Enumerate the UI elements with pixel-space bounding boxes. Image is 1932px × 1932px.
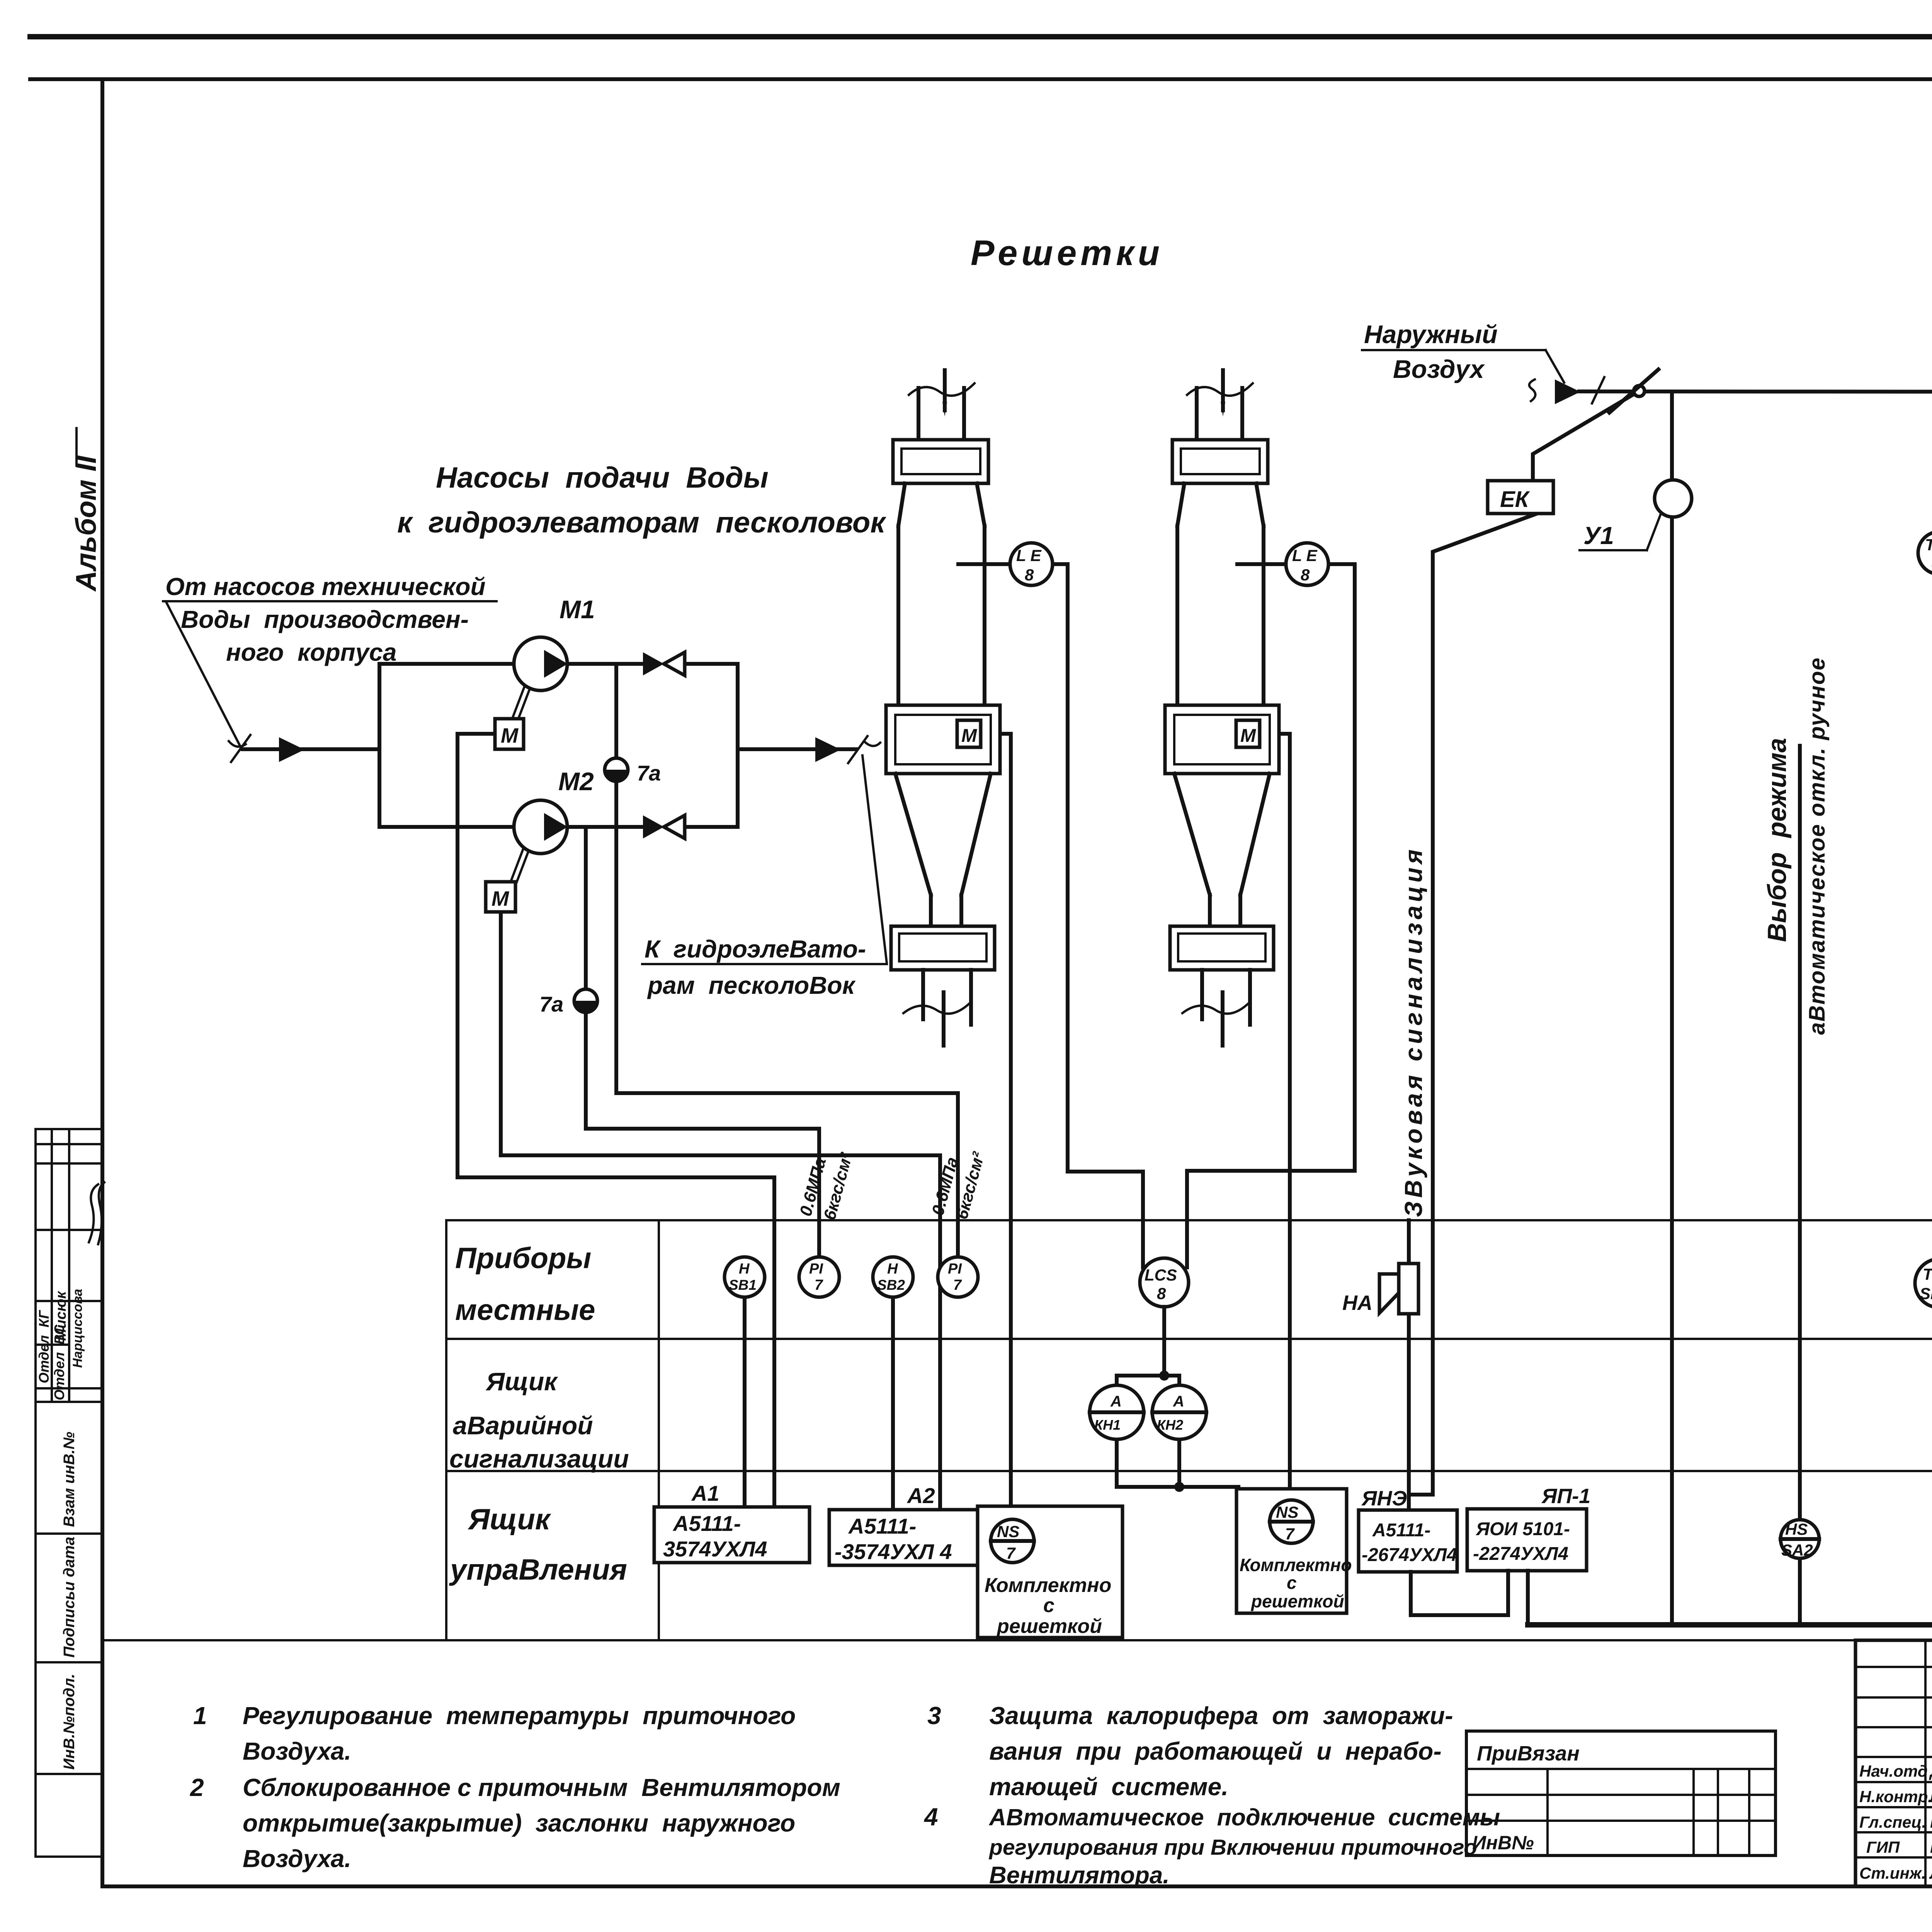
pump loop left header bbox=[378, 664, 381, 827]
pressure gauge PI7 first bbox=[799, 1257, 839, 1297]
box YP-1 bbox=[1467, 1509, 1587, 1571]
motor box M of pump M1 bbox=[495, 719, 524, 749]
drawing frame bottom bbox=[102, 1884, 1932, 1888]
svg-text:ГИП: ГИП bbox=[1866, 1838, 1900, 1856]
inlet flow arrow bbox=[279, 737, 304, 762]
svg-text:аВарийной: аВарийной bbox=[453, 1411, 593, 1440]
grate 2 top tube bbox=[1195, 388, 1199, 440]
grate 2 top rectangle bbox=[1172, 440, 1268, 483]
svg-text:ЗВуковая сигнализация: ЗВуковая сигнализация bbox=[1400, 846, 1427, 1217]
svg-text:LСS: LСS bbox=[1145, 1266, 1177, 1284]
stem H SB1 to box A1 bbox=[743, 1297, 747, 1508]
grate 1 top tube bbox=[917, 388, 920, 440]
pump M2 bbox=[514, 800, 567, 854]
svg-text:1: 1 bbox=[193, 1702, 207, 1730]
air damper junction bbox=[1634, 386, 1645, 396]
svg-text:рам песколоВок: рам песколоВок bbox=[647, 971, 856, 999]
pressure gauge PI7 second bbox=[938, 1257, 978, 1297]
svg-text:КН1: КН1 bbox=[1094, 1417, 1121, 1433]
wire LCS8 to horns bbox=[1117, 1307, 1179, 1386]
stamp column line 2 bbox=[68, 1129, 70, 1402]
alarm horn A KH2 bbox=[1152, 1385, 1206, 1439]
svg-text:Воздуха.: Воздуха. bbox=[243, 1845, 351, 1872]
grate 2 starter box NS7 bbox=[1236, 1489, 1347, 1613]
actuator U1 bbox=[1655, 480, 1692, 517]
grate 2 bottom rectangle bbox=[1170, 926, 1274, 970]
grate 1 motor box bbox=[957, 720, 981, 747]
wire HS SA2 to bus bbox=[1798, 1558, 1802, 1625]
wire YP1 to bus bbox=[1526, 1571, 1530, 1625]
motor box M of pump M2 bbox=[486, 882, 515, 912]
grate 2 bottom center line bbox=[1221, 992, 1225, 1046]
svg-text:Ящик: Ящик bbox=[468, 1503, 551, 1536]
control bus bbox=[1528, 1622, 1932, 1628]
alarm box YANE bbox=[1359, 1510, 1457, 1572]
wire from EK to damper junction bbox=[1533, 391, 1639, 481]
button station H SB1 bbox=[724, 1257, 765, 1297]
svg-text:АВтоматическое подключение с: АВтоматическое подключение системы bbox=[988, 1804, 1500, 1830]
grate 2 bottom break wave bbox=[1182, 1002, 1250, 1014]
grate 2 motor box bbox=[1236, 720, 1260, 747]
svg-text:У1: У1 bbox=[1583, 522, 1614, 549]
svg-text:открытие(закрытие) заслонки: открытие(закрытие) заслонки наружного bbox=[243, 1809, 795, 1837]
control box A2 bbox=[829, 1510, 981, 1565]
top band line bbox=[30, 34, 1932, 39]
svg-text:Сблокированное с приточным Ве: Сблокированное с приточным Вентилятором bbox=[243, 1774, 840, 1801]
grate 1 level stub to LE8 bbox=[958, 562, 1010, 566]
svg-text:8: 8 bbox=[1301, 566, 1310, 584]
attachment box Привязан bbox=[1466, 1731, 1776, 1855]
svg-text:ИнВ.№подл.: ИнВ.№подл. bbox=[61, 1674, 78, 1770]
svg-text:SВ1: SВ1 bbox=[729, 1277, 757, 1293]
wire from pump M2 starter to board bbox=[501, 912, 940, 1509]
sensor 7a bottom bbox=[574, 989, 597, 1012]
table row line 1 bbox=[446, 1338, 1932, 1340]
top pump pipe bbox=[379, 662, 643, 666]
svg-text:Ящик: Ящик bbox=[485, 1367, 558, 1396]
svg-text:Выбор режима: Выбор режима bbox=[1762, 738, 1792, 942]
sensor TE4 bbox=[1918, 532, 1932, 574]
svg-text:Воздух: Воздух bbox=[1393, 355, 1485, 383]
svg-text:ЯП-1: ЯП-1 bbox=[1541, 1485, 1590, 1508]
bottom U link YANE YP1 bbox=[1411, 1571, 1508, 1615]
svg-text:Комплектно: Комплектно bbox=[1240, 1555, 1352, 1575]
svg-text:Воды производствен-: Воды производствен- bbox=[181, 605, 469, 633]
svg-text:А1: А1 bbox=[691, 1481, 719, 1505]
grate 2 motor wire to NS7 box bbox=[1260, 734, 1290, 1501]
svg-text:РI: РI bbox=[948, 1261, 962, 1277]
impulse line sensor 7a bottom to gauge PI7 bbox=[586, 827, 819, 1258]
svg-text:А5111-: А5111- bbox=[848, 1514, 916, 1538]
svg-text:сигнализации: сигнализации bbox=[449, 1444, 629, 1473]
svg-text:Н.контр.: Н.контр. bbox=[1859, 1787, 1932, 1806]
damper blade bbox=[1609, 369, 1658, 413]
svg-text:Регулирование температуры пр: Регулирование температуры приточного bbox=[243, 1702, 796, 1730]
stem H SB2 to box A2 bbox=[891, 1297, 895, 1510]
svg-text:к гидроэлеваторам песколовок: к гидроэлеваторам песколовок bbox=[397, 506, 886, 539]
svg-text:ГусеВа: ГусеВа bbox=[1930, 1838, 1932, 1856]
horn stems to grate box bbox=[1117, 1438, 1238, 1487]
grate 1 top break wave bbox=[909, 383, 975, 396]
svg-text:7а: 7а bbox=[539, 992, 563, 1016]
leader from outlet break bbox=[862, 755, 887, 963]
svg-text:-2674УХЛ4: -2674УХЛ4 bbox=[1362, 1545, 1457, 1565]
grate 1 flare bbox=[898, 483, 905, 526]
valve on top pipe bbox=[643, 652, 664, 675]
svg-text:Гольцман: Гольцман bbox=[1930, 1813, 1932, 1831]
svg-text:Н: Н bbox=[887, 1261, 898, 1277]
grate 1 body walls bbox=[896, 526, 900, 705]
svg-text:Воздуха.: Воздуха. bbox=[243, 1737, 351, 1765]
pump M2 shaft bbox=[511, 849, 529, 883]
svg-text:Ст.инж.: Ст.инж. bbox=[1859, 1864, 1926, 1882]
svg-text:Защита калорифера от замора: Защита калорифера от заморажи- bbox=[989, 1702, 1453, 1730]
grate 2 top break wave bbox=[1187, 383, 1253, 396]
temperature switch TS SK1 bbox=[1915, 1259, 1932, 1308]
svg-text:М1: М1 bbox=[560, 595, 595, 624]
control box A1 bbox=[654, 1507, 810, 1563]
svg-text:Взам инВ.№: Взам инВ.№ bbox=[61, 1432, 78, 1527]
inlet pipe bbox=[243, 747, 379, 751]
title block outer bbox=[1855, 1640, 1932, 1886]
svg-text:ЯНЭ: ЯНЭ bbox=[1361, 1487, 1407, 1510]
svg-text:Отдел КГ: Отдел КГ bbox=[36, 1310, 52, 1383]
svg-text:4: 4 bbox=[923, 1803, 938, 1831]
horn wire down to box YANE bbox=[1407, 1220, 1411, 1510]
svg-text:Альбом II: Альбом II bbox=[70, 455, 102, 592]
grate 1 bottom tube bbox=[921, 970, 925, 1019]
impulse line sensor 7a top to gauge PI7 bbox=[616, 664, 958, 1258]
grate 1 middle rectangle bbox=[886, 705, 1000, 774]
svg-text:аВтоматическое откл. ручное: аВтоматическое откл. ручное bbox=[1804, 657, 1830, 1035]
svg-text:А5111-: А5111- bbox=[672, 1511, 741, 1536]
button station H SB2 bbox=[873, 1257, 913, 1297]
bottom pump pipe bbox=[379, 825, 643, 829]
separator line below table bbox=[102, 1639, 1932, 1641]
svg-text:ГусеВа: ГусеВа bbox=[1930, 1787, 1932, 1806]
svg-text:А: А bbox=[1173, 1393, 1184, 1410]
svg-text:SА2: SА2 bbox=[1781, 1541, 1813, 1559]
svg-text:-2274УХЛ4: -2274УХЛ4 bbox=[1473, 1544, 1568, 1564]
svg-text:L E: L E bbox=[1016, 546, 1042, 565]
svg-text:-3574УХЛ 4: -3574УХЛ 4 bbox=[835, 1539, 952, 1564]
level controller LCS8 bbox=[1140, 1258, 1189, 1307]
mode select wire to HS SA2 bbox=[1798, 746, 1802, 1520]
svg-text:М: М bbox=[492, 887, 509, 910]
leader to air inlet bbox=[1546, 350, 1564, 383]
grate 2 level wire LE8 to LCS8 bbox=[1187, 564, 1355, 1267]
svg-text:3574УХЛ4: 3574УХЛ4 bbox=[663, 1537, 767, 1561]
svg-text:NS: NS bbox=[1276, 1503, 1298, 1521]
grate 1 motor wire to NS7 box bbox=[981, 734, 1011, 1519]
grate 1 level wire LE8 to LCS8 bbox=[1053, 564, 1143, 1267]
alarm horn A KH1 bbox=[1090, 1385, 1144, 1439]
svg-text:Н: Н bbox=[739, 1261, 750, 1277]
svg-text:От насосов технической: От насосов технической bbox=[165, 573, 486, 600]
svg-text:Приборы: Приборы bbox=[455, 1242, 591, 1275]
grate 2 body walls bbox=[1175, 526, 1179, 705]
svg-text:7: 7 bbox=[1285, 1525, 1295, 1543]
svg-text:ИнВ№: ИнВ№ bbox=[1472, 1832, 1534, 1854]
svg-text:7: 7 bbox=[815, 1277, 823, 1293]
svg-text:регулирования при Включении пр: регулирования при Включении приточного bbox=[988, 1835, 1477, 1860]
svg-text:ТЕ: ТЕ bbox=[1925, 536, 1932, 554]
grate 2 level stub to LE8 bbox=[1237, 562, 1286, 566]
svg-text:8: 8 bbox=[1025, 566, 1034, 584]
svg-text:РI: РI bbox=[809, 1261, 823, 1277]
junction dot at horn bus bbox=[1174, 1482, 1184, 1492]
level sensor LE8 of grate 2 bbox=[1286, 543, 1328, 585]
svg-text:К гидроэлеВато-: К гидроэлеВато- bbox=[645, 935, 866, 963]
wire from pump M1 starter to board bbox=[457, 734, 774, 1507]
signature table rows bbox=[1855, 1666, 1932, 1668]
svg-text:с: с bbox=[1043, 1594, 1054, 1617]
end switch box EK bbox=[1488, 481, 1553, 514]
grate 2 top center line bbox=[1221, 370, 1225, 410]
damper tick bbox=[1592, 377, 1604, 403]
svg-text:ЯОИ 5101-: ЯОИ 5101- bbox=[1475, 1519, 1570, 1539]
svg-text:с: с bbox=[1287, 1573, 1297, 1593]
grate 2 flare bbox=[1177, 483, 1184, 526]
svg-text:8: 8 bbox=[1157, 1284, 1166, 1303]
svg-text:Нач.отд: Нач.отд bbox=[1859, 1762, 1928, 1780]
inlet pipe break bbox=[229, 735, 250, 762]
svg-text:А5111-: А5111- bbox=[1372, 1520, 1430, 1541]
table label column divider bbox=[658, 1220, 660, 1640]
pump M1 bbox=[514, 637, 567, 690]
valve on bottom pipe bbox=[643, 815, 664, 838]
signature table columns bbox=[1924, 1640, 1927, 1886]
svg-text:М: М bbox=[961, 726, 977, 746]
svg-text:А2: А2 bbox=[906, 1483, 935, 1508]
svg-text:7а: 7а bbox=[637, 761, 661, 785]
outlet flow arrow bbox=[815, 737, 841, 762]
grate 1 top rectangle bbox=[893, 440, 988, 483]
grate 1 starter box NS7 bbox=[978, 1506, 1122, 1638]
outlet pipe bbox=[738, 747, 856, 751]
outlet pipe break bbox=[848, 736, 880, 763]
level sensor LE8 of grate 1 bbox=[1010, 543, 1053, 585]
svg-text:ПриВязан: ПриВязан bbox=[1477, 1742, 1580, 1765]
svg-text:Нарциссова: Нарциссова bbox=[70, 1289, 85, 1368]
svg-text:ного корпуса: ного корпуса bbox=[226, 638, 396, 666]
grate 1 bottom rectangle bbox=[891, 926, 995, 970]
svg-text:вания при работающей и нер: вания при работающей и нерабо- bbox=[989, 1737, 1442, 1765]
wire EK down to box YANE bbox=[1409, 514, 1537, 1495]
air inlet break bbox=[1529, 379, 1536, 401]
svg-text:КН2: КН2 bbox=[1157, 1417, 1183, 1433]
pump M1 shaft bbox=[512, 686, 530, 720]
svg-text:М2: М2 bbox=[558, 767, 594, 796]
stamp signature squiggle 1 bbox=[89, 1184, 98, 1242]
svg-text:ЕК: ЕК bbox=[1500, 487, 1530, 512]
svg-text:Вентилятора.: Вентилятора. bbox=[989, 1862, 1170, 1889]
stamp outer box bbox=[36, 1129, 102, 1857]
stamp row lines bbox=[36, 1143, 102, 1145]
svg-text:Гл.спец.: Гл.спец. bbox=[1859, 1813, 1926, 1831]
svg-text:упраВления: упраВления bbox=[449, 1553, 627, 1586]
svg-text:тающей системе.: тающей системе. bbox=[989, 1773, 1228, 1801]
svg-text:ТS: ТS bbox=[1923, 1265, 1932, 1283]
junction dot at LCS bbox=[1159, 1371, 1169, 1381]
horn НА bbox=[1399, 1264, 1418, 1314]
actuator U1 wire bbox=[1670, 392, 1674, 1625]
svg-text:SВ2: SВ2 bbox=[877, 1277, 905, 1293]
svg-text:М: М bbox=[1240, 726, 1256, 746]
svg-text:L E: L E bbox=[1292, 546, 1318, 565]
air duct line bbox=[1579, 391, 1932, 392]
svg-text:А: А bbox=[1110, 1393, 1122, 1410]
svg-text:SК1: SК1 bbox=[1920, 1284, 1932, 1303]
grate 2 middle rectangle bbox=[1165, 705, 1279, 774]
svg-text:Решетки: Решетки bbox=[971, 233, 1163, 273]
stamp column line 1 bbox=[51, 1129, 53, 1402]
svg-text:Отдел ВС: Отдел ВС bbox=[51, 1324, 67, 1400]
svg-text:НS: НS bbox=[1785, 1520, 1808, 1538]
svg-text:М: М bbox=[501, 724, 519, 747]
table outline bbox=[446, 1220, 1932, 1640]
svg-text:2: 2 bbox=[190, 1774, 204, 1801]
svg-text:Насосы подачи Воды: Насосы подачи Воды bbox=[436, 461, 769, 494]
svg-text:Наружный: Наружный bbox=[1364, 320, 1498, 349]
svg-text:7: 7 bbox=[1006, 1544, 1016, 1562]
grate 1 top center line bbox=[943, 370, 947, 410]
grate 2 funnel bbox=[1174, 774, 1210, 895]
sensor 7a top bbox=[605, 758, 628, 781]
leader line to inlet bbox=[166, 602, 240, 745]
svg-text:3: 3 bbox=[927, 1702, 941, 1730]
svg-text:НА: НА bbox=[1342, 1291, 1372, 1315]
drawing frame left bbox=[100, 79, 104, 1886]
pump loop right header bbox=[736, 664, 740, 827]
svg-text:КопироВал: Боброва: КопироВал: Боброва bbox=[1153, 1929, 1436, 1932]
svg-text:Комплектно: Комплектно bbox=[985, 1574, 1111, 1597]
svg-text:7: 7 bbox=[953, 1277, 962, 1293]
table row line 2 bbox=[446, 1470, 1932, 1472]
svg-text:решеткой: решеткой bbox=[1250, 1591, 1344, 1611]
grate 1 bottom center line bbox=[942, 992, 946, 1046]
air inlet arrow bbox=[1555, 379, 1580, 404]
svg-text:местные: местные bbox=[455, 1294, 595, 1327]
grate 2 bottom tube bbox=[1200, 970, 1204, 1019]
grate 1 funnel bbox=[895, 774, 931, 895]
band bottom line bbox=[30, 77, 1932, 81]
svg-text:NS: NS bbox=[997, 1522, 1019, 1541]
selector switch HS SA2 bbox=[1781, 1520, 1819, 1558]
svg-text:Подписьи дата: Подписьи дата bbox=[61, 1537, 78, 1658]
grate 1 bottom break wave bbox=[903, 1002, 971, 1014]
svg-text:решеткой: решеткой bbox=[996, 1615, 1102, 1638]
